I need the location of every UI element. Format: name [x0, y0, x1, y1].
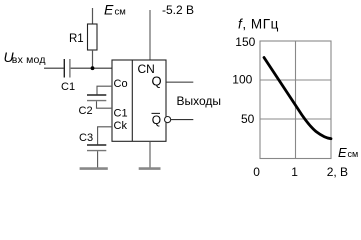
graph gridline horizontal f=50	[260, 118, 331, 120]
svg-text:E: E	[104, 2, 114, 18]
svg-text:C1: C1	[114, 108, 128, 120]
Qbar inversion bubble	[165, 117, 171, 123]
curve f(Eсм)	[264, 58, 331, 139]
svg-text:1: 1	[291, 165, 298, 179]
graph gridline horizontal f=100	[260, 79, 331, 81]
capacitor C1	[63, 59, 65, 78]
svg-text:E: E	[338, 145, 347, 160]
svg-text:вх мод: вх мод	[12, 54, 46, 66]
wire Ck pin	[98, 127, 112, 145]
svg-text:0: 0	[253, 165, 260, 179]
svg-text:-5.2 В: -5.2 В	[162, 3, 194, 17]
wire IC to ground	[149, 141, 151, 167]
svg-text:R1: R1	[69, 33, 84, 45]
wire Qbar output	[171, 119, 194, 121]
resistor R1	[88, 24, 98, 50]
svg-text:см: см	[115, 7, 126, 18]
svg-text:C1: C1	[61, 81, 75, 93]
svg-text:C3: C3	[79, 132, 93, 144]
wire C3 to ground	[97, 151, 99, 167]
graph gridline vertical x=1	[295, 41, 297, 159]
svg-text:C2: C2	[79, 105, 93, 117]
wire Co pin	[97, 86, 112, 94]
wire input right	[71, 67, 112, 69]
wire E rail top	[92, 8, 94, 24]
svg-text:2, В: 2, В	[327, 165, 348, 179]
op-amp U1 IC body	[112, 60, 166, 141]
svg-text:50: 50	[241, 112, 255, 126]
ground under IC	[139, 167, 161, 170]
svg-text:150: 150	[235, 35, 255, 49]
svg-text:Ck: Ck	[114, 120, 128, 132]
wire Q output	[167, 81, 194, 83]
svg-text:f, МГц: f, МГц	[238, 17, 279, 32]
wire C2 bottom to C1 pin	[97, 101, 113, 108]
svg-text:Co: Co	[114, 78, 128, 90]
wire input left	[44, 67, 64, 69]
wire R1 bottom to input line	[92, 50, 94, 68]
svg-text:Q: Q	[152, 113, 161, 127]
ground under C3	[80, 167, 108, 170]
svg-text:100: 100	[232, 72, 252, 86]
capacitor C2	[87, 94, 106, 96]
wire -5.2V supply	[149, 10, 151, 60]
svg-text:Выходы: Выходы	[177, 94, 222, 108]
graph frame	[260, 41, 331, 159]
junction dot	[91, 66, 95, 70]
svg-text:см: см	[348, 149, 359, 159]
svg-text:Q: Q	[152, 73, 162, 88]
